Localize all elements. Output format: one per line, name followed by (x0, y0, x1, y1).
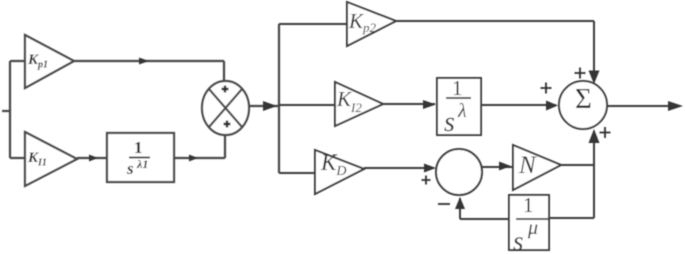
svg-text:s: s (513, 226, 524, 254)
svg-text:1: 1 (523, 193, 534, 217)
svg-text:N: N (518, 152, 537, 179)
svg-text:1: 1 (452, 76, 463, 100)
svg-text:λ1: λ1 (136, 157, 148, 171)
svg-text:s: s (126, 159, 134, 178)
svg-text:1: 1 (134, 138, 143, 157)
svg-text:Σ: Σ (575, 83, 592, 115)
svg-text:μ: μ (527, 217, 538, 239)
svg-text:s: s (444, 107, 455, 138)
svg-text:λ: λ (457, 100, 467, 122)
